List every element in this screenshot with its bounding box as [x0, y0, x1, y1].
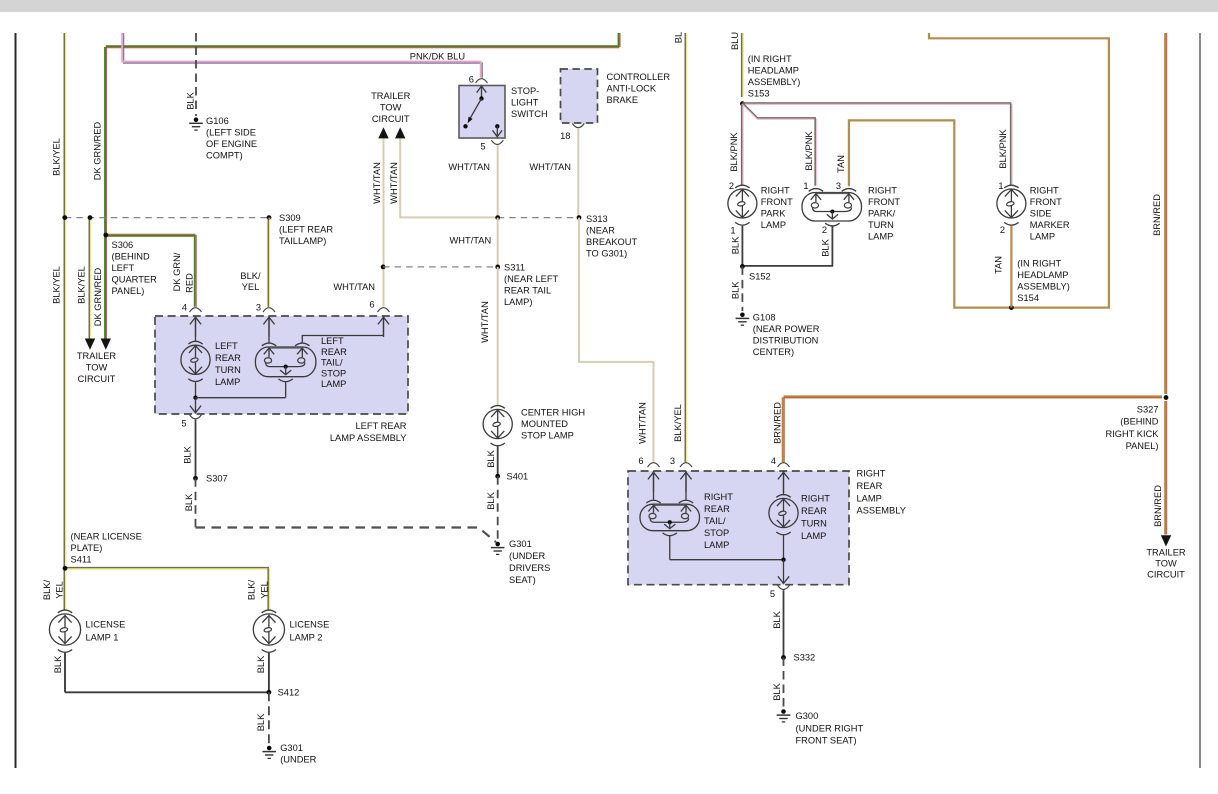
svg-text:PANEL): PANEL) — [1126, 441, 1159, 451]
svg-text:TAIL/: TAIL/ — [704, 516, 726, 526]
svg-text:3: 3 — [836, 181, 841, 191]
svg-text:TRAILER: TRAILER — [1146, 548, 1186, 558]
svg-text:LAMP): LAMP) — [504, 297, 532, 307]
svg-text:5: 5 — [770, 589, 775, 599]
svg-text:G301: G301 — [280, 743, 303, 753]
svg-text:RIGHT: RIGHT — [868, 186, 897, 196]
svg-text:ASSEMBLY): ASSEMBLY) — [748, 77, 801, 87]
svg-text:LAMP: LAMP — [704, 540, 729, 550]
svg-text:RIGHT: RIGHT — [1030, 186, 1059, 196]
svg-text:BLK: BLK — [730, 236, 740, 254]
svg-text:BLK: BLK — [185, 91, 195, 109]
svg-text:(NEAR POWER: (NEAR POWER — [753, 324, 820, 334]
svg-text:LAMP: LAMP — [801, 531, 826, 541]
svg-text:LIGHT: LIGHT — [511, 98, 539, 108]
svg-text:S327: S327 — [1137, 405, 1159, 415]
svg-text:DK GRN/RED: DK GRN/RED — [92, 122, 102, 181]
svg-text:(IN RIGHT: (IN RIGHT — [748, 54, 792, 64]
svg-text:BLK/YEL: BLK/YEL — [51, 266, 61, 304]
svg-text:LEFT: LEFT — [112, 263, 135, 273]
svg-text:LAMP: LAMP — [1030, 232, 1055, 242]
svg-text:BRAKE: BRAKE — [607, 95, 639, 105]
svg-text:LAMP 2: LAMP 2 — [290, 633, 323, 643]
svg-text:BLK/: BLK/ — [42, 580, 52, 601]
svg-text:TO G301): TO G301) — [586, 249, 627, 259]
svg-text:BLK: BLK — [821, 238, 831, 256]
svg-text:WHT/TAN: WHT/TAN — [480, 301, 490, 343]
svg-text:(NEAR: (NEAR — [586, 226, 615, 236]
svg-text:2: 2 — [1000, 225, 1005, 235]
svg-text:SEAT): SEAT) — [509, 575, 536, 585]
svg-text:BLK/YEL: BLK/YEL — [77, 266, 87, 304]
svg-text:BLK: BLK — [772, 682, 782, 700]
svg-text:ASSEMBLY: ASSEMBLY — [857, 506, 906, 516]
svg-text:PARK: PARK — [761, 209, 786, 219]
svg-text:(BEHIND: (BEHIND — [1120, 417, 1159, 427]
svg-text:BLK: BLK — [184, 493, 194, 511]
svg-text:STOP LAMP: STOP LAMP — [521, 431, 574, 441]
svg-text:STOP: STOP — [321, 368, 346, 378]
svg-text:BLK: BLK — [486, 491, 496, 509]
svg-text:LAMP 1: LAMP 1 — [86, 633, 119, 643]
svg-text:S401: S401 — [507, 472, 529, 482]
svg-text:BRN/RED: BRN/RED — [1152, 194, 1162, 236]
svg-text:QUARTER: QUARTER — [112, 275, 158, 285]
svg-text:ASSEMBLY): ASSEMBLY) — [1017, 281, 1070, 291]
svg-text:TAILLAMP): TAILLAMP) — [279, 236, 326, 246]
svg-text:LAMP: LAMP — [321, 379, 346, 389]
svg-text:BLK/: BLK/ — [246, 580, 256, 601]
svg-text:G301: G301 — [509, 539, 532, 549]
svg-text:S313: S313 — [586, 214, 608, 224]
svg-text:WHT/TAN: WHT/TAN — [389, 162, 399, 204]
svg-text:BLK: BLK — [182, 445, 192, 463]
svg-text:FRONT: FRONT — [868, 197, 900, 207]
svg-text:OF ENGINE: OF ENGINE — [206, 139, 257, 149]
svg-text:(UNDER: (UNDER — [509, 551, 545, 561]
svg-text:TOW: TOW — [1155, 559, 1177, 569]
svg-text:4: 4 — [771, 456, 776, 466]
svg-text:RIGHT: RIGHT — [761, 186, 790, 196]
svg-text:REAR: REAR — [801, 506, 827, 516]
svg-text:CIRCUIT: CIRCUIT — [1147, 570, 1185, 580]
svg-text:RIGHT: RIGHT — [704, 492, 733, 502]
svg-text:BLK: BLK — [256, 713, 266, 731]
svg-text:CENTER HIGH: CENTER HIGH — [521, 408, 585, 418]
svg-text:BLK/PNK: BLK/PNK — [998, 129, 1008, 169]
svg-text:S309: S309 — [279, 213, 301, 223]
svg-text:2: 2 — [729, 181, 734, 191]
svg-text:BLU: BLU — [730, 32, 740, 50]
svg-text:MARKER: MARKER — [1030, 220, 1070, 230]
svg-text:DK GRN/: DK GRN/ — [172, 252, 182, 291]
svg-text:TURN: TURN — [868, 220, 894, 230]
svg-text:CONTROLLER: CONTROLLER — [607, 72, 671, 82]
svg-text:G106: G106 — [206, 116, 229, 126]
svg-text:LAMP: LAMP — [761, 220, 786, 230]
svg-text:TOW: TOW — [380, 103, 402, 113]
svg-text:G108: G108 — [753, 313, 776, 323]
svg-text:STOP: STOP — [704, 528, 729, 538]
svg-text:DK GRN/RED: DK GRN/RED — [93, 268, 103, 327]
svg-text:LICENSE: LICENSE — [86, 620, 126, 630]
svg-text:STOP-: STOP- — [511, 86, 539, 96]
svg-text:BLK: BLK — [53, 655, 63, 673]
svg-text:(NEAR LEFT: (NEAR LEFT — [504, 274, 559, 284]
svg-text:LAMP: LAMP — [857, 493, 882, 503]
svg-text:DISTRIBUTION: DISTRIBUTION — [753, 336, 819, 346]
svg-text:PNK/DK BLU: PNK/DK BLU — [410, 51, 465, 61]
svg-text:(NEAR LICENSE: (NEAR LICENSE — [71, 532, 142, 542]
svg-text:BLK: BLK — [772, 610, 782, 628]
svg-text:YEL: YEL — [242, 282, 260, 292]
svg-text:CIRCUIT: CIRCUIT — [78, 374, 116, 384]
svg-text:LEFT REAR: LEFT REAR — [356, 421, 407, 431]
svg-text:RIGHT: RIGHT — [857, 469, 886, 479]
svg-text:PARK/: PARK/ — [868, 209, 896, 219]
svg-text:3: 3 — [670, 456, 675, 466]
svg-text:LEFT: LEFT — [321, 336, 344, 346]
svg-text:COMPT): COMPT) — [206, 150, 243, 160]
svg-text:TRAILER: TRAILER — [77, 351, 117, 361]
svg-text:REAR: REAR — [857, 481, 883, 491]
svg-text:WHT/TAN: WHT/TAN — [529, 162, 571, 172]
svg-text:BRN/RED: BRN/RED — [1153, 485, 1163, 527]
svg-text:18: 18 — [560, 131, 570, 141]
svg-text:CENTER): CENTER) — [753, 347, 794, 357]
svg-text:REAR TAIL: REAR TAIL — [504, 286, 551, 296]
svg-text:BLK/YEL: BLK/YEL — [673, 404, 683, 442]
svg-text:S332: S332 — [794, 653, 816, 663]
svg-text:TAIL/: TAIL/ — [321, 358, 343, 368]
svg-text:LAMP ASSEMBLY: LAMP ASSEMBLY — [330, 433, 407, 443]
svg-text:3: 3 — [256, 303, 261, 313]
svg-text:WHT/TAN: WHT/TAN — [333, 282, 375, 292]
svg-text:SIDE: SIDE — [1030, 209, 1052, 219]
svg-text:TURN: TURN — [215, 365, 241, 375]
svg-text:LEFT: LEFT — [215, 341, 238, 351]
svg-text:1: 1 — [730, 226, 735, 236]
svg-text:S154: S154 — [1017, 293, 1039, 303]
svg-text:S153: S153 — [748, 89, 770, 99]
svg-text:FRONT: FRONT — [1030, 197, 1062, 207]
svg-text:S311: S311 — [504, 263, 525, 273]
svg-text:2: 2 — [822, 225, 827, 235]
svg-text:RIGHT: RIGHT — [801, 494, 830, 504]
svg-text:REAR: REAR — [215, 353, 241, 363]
svg-text:S412: S412 — [278, 687, 300, 697]
svg-text:FRONT: FRONT — [761, 197, 793, 207]
svg-text:(LEFT REAR: (LEFT REAR — [279, 225, 333, 235]
svg-text:WHT/TAN: WHT/TAN — [448, 162, 490, 172]
svg-text:5: 5 — [181, 418, 186, 428]
svg-text:DRIVERS: DRIVERS — [509, 563, 550, 573]
svg-text:HEADLAMP: HEADLAMP — [1017, 270, 1068, 280]
svg-text:MOUNTED: MOUNTED — [521, 419, 568, 429]
svg-text:1: 1 — [998, 181, 1003, 191]
svg-text:S152: S152 — [749, 272, 771, 282]
svg-text:RED: RED — [184, 273, 194, 293]
svg-text:BL: BL — [673, 32, 683, 43]
svg-text:PLATE): PLATE) — [71, 543, 103, 553]
svg-text:YEL: YEL — [259, 581, 269, 599]
svg-text:LAMP: LAMP — [215, 377, 240, 387]
svg-text:(BEHIND: (BEHIND — [112, 252, 151, 262]
svg-text:(IN RIGHT: (IN RIGHT — [1017, 258, 1061, 268]
svg-text:5: 5 — [480, 142, 485, 152]
svg-text:S307: S307 — [206, 474, 228, 484]
svg-text:TOW: TOW — [86, 363, 108, 373]
svg-text:BRN/RED: BRN/RED — [772, 402, 782, 444]
svg-text:BLK: BLK — [486, 449, 496, 467]
svg-text:CIRCUIT: CIRCUIT — [372, 114, 410, 124]
svg-text:(UNDER RIGHT: (UNDER RIGHT — [796, 723, 864, 733]
svg-text:(UNDER: (UNDER — [280, 755, 316, 765]
svg-text:TAN: TAN — [836, 155, 846, 173]
svg-text:6: 6 — [638, 456, 643, 466]
svg-text:WHT/TAN: WHT/TAN — [637, 402, 647, 444]
svg-text:(LEFT SIDE: (LEFT SIDE — [206, 127, 256, 137]
svg-text:LAMP: LAMP — [868, 232, 893, 242]
svg-text:LICENSE: LICENSE — [290, 620, 330, 630]
svg-text:ANTI-LOCK: ANTI-LOCK — [607, 84, 657, 94]
svg-text:G300: G300 — [796, 711, 819, 721]
svg-text:HEADLAMP: HEADLAMP — [748, 66, 799, 76]
svg-text:4: 4 — [182, 303, 187, 313]
svg-text:BLK: BLK — [256, 655, 266, 673]
svg-text:BLK/YEL: BLK/YEL — [51, 138, 61, 176]
svg-text:REAR: REAR — [704, 504, 730, 514]
svg-text:PANEL): PANEL) — [112, 286, 145, 296]
svg-text:SWITCH: SWITCH — [511, 109, 548, 119]
svg-text:1: 1 — [803, 181, 808, 191]
svg-text:S306: S306 — [112, 240, 134, 250]
svg-text:BLK/: BLK/ — [240, 271, 261, 281]
svg-text:WHT/TAN: WHT/TAN — [450, 235, 492, 245]
svg-text:TRAILER: TRAILER — [371, 91, 411, 101]
svg-text:YEL: YEL — [55, 581, 65, 599]
svg-text:RIGHT KICK: RIGHT KICK — [1105, 429, 1159, 439]
svg-text:6: 6 — [369, 300, 374, 310]
svg-text:BLK/PNK: BLK/PNK — [804, 131, 814, 171]
svg-text:BLK: BLK — [731, 281, 741, 299]
svg-text:WHT/TAN: WHT/TAN — [372, 162, 382, 204]
svg-text:6: 6 — [469, 75, 474, 85]
svg-text:TURN: TURN — [801, 519, 827, 529]
svg-text:BREAKOUT: BREAKOUT — [586, 237, 637, 247]
svg-text:REAR: REAR — [321, 347, 347, 357]
svg-text:S411: S411 — [71, 555, 92, 565]
svg-text:FRONT SEAT): FRONT SEAT) — [796, 736, 857, 746]
svg-text:TAN: TAN — [994, 256, 1004, 274]
svg-text:BLK/PNK: BLK/PNK — [729, 132, 739, 172]
